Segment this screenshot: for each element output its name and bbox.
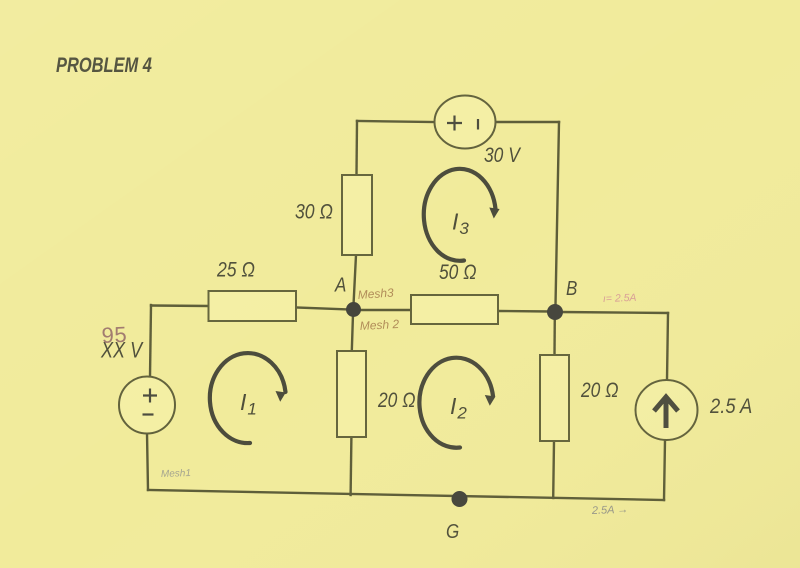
wire node A to R 50ohm <box>356 309 411 311</box>
wire V source bottom to bottom-left corner <box>147 433 148 490</box>
handwritten 95 <box>101 322 128 348</box>
handwritten I=2.5A pink <box>603 292 637 305</box>
wire top corner down to R 30ohm <box>355 121 358 175</box>
wire 30V source to top-right corner <box>496 121 560 123</box>
wire R 20ohm middle down to bottom wire <box>349 437 352 495</box>
handwritten Mesh1 <box>161 468 191 480</box>
wire top-right corner down to node B <box>556 122 560 305</box>
wire left vertical top (middle wire to V source) <box>150 305 151 377</box>
node B dot <box>547 304 563 320</box>
handwritten Mesh 2 <box>359 317 399 333</box>
label 2.5 A <box>709 395 752 418</box>
wire bottom horizontal <box>148 490 664 500</box>
label B <box>566 277 577 300</box>
mesh arrow I3 <box>424 169 500 261</box>
wire left horizontal to R 25ohm <box>151 304 209 307</box>
resistor R 50ohm box <box>411 295 498 324</box>
voltage source V1 XX V circle <box>119 377 175 434</box>
node A dot <box>346 302 361 317</box>
mesh arrow I2 <box>419 358 495 448</box>
voltage source V2 30V circle <box>435 96 496 149</box>
label 20 ohm right <box>580 380 619 403</box>
wire R 20ohm right down to bottom wire <box>552 441 555 498</box>
wire right corner down to current source <box>667 313 668 380</box>
handwritten Mesh3 <box>357 285 394 302</box>
resistor R 20ohm right box <box>540 355 569 441</box>
label 50 ohm <box>439 262 477 285</box>
wire R 25ohm to node A <box>296 308 350 310</box>
resistor R 20ohm middle box <box>337 351 366 437</box>
wire node B to right corner <box>560 312 668 313</box>
mesh arrow I1 <box>210 353 286 443</box>
handwritten 2.5A arrow <box>591 504 629 517</box>
label 30 ohm <box>295 200 333 224</box>
wire current source down to bottom-right corner <box>664 440 665 500</box>
wire top-left corner to 30V source <box>357 121 435 122</box>
label A <box>334 273 346 296</box>
wire node A down to R 20ohm middle <box>352 314 353 351</box>
current source 2.5A circle <box>636 380 698 440</box>
wire R 30ohm bottom to node A <box>354 255 357 305</box>
title PROBLEM 4 <box>56 54 152 78</box>
resistor R 30ohm box <box>342 175 372 255</box>
wire node B down to R 20ohm right <box>553 316 556 355</box>
label 30 V <box>484 145 522 168</box>
resistor R 25ohm box <box>209 291 297 321</box>
label 20 ohm middle <box>377 390 416 413</box>
label XX V <box>100 339 143 363</box>
label 25 ohm <box>216 258 255 282</box>
wire R 50ohm to node B <box>498 310 550 313</box>
node G dot <box>452 491 468 507</box>
label G <box>446 520 459 543</box>
